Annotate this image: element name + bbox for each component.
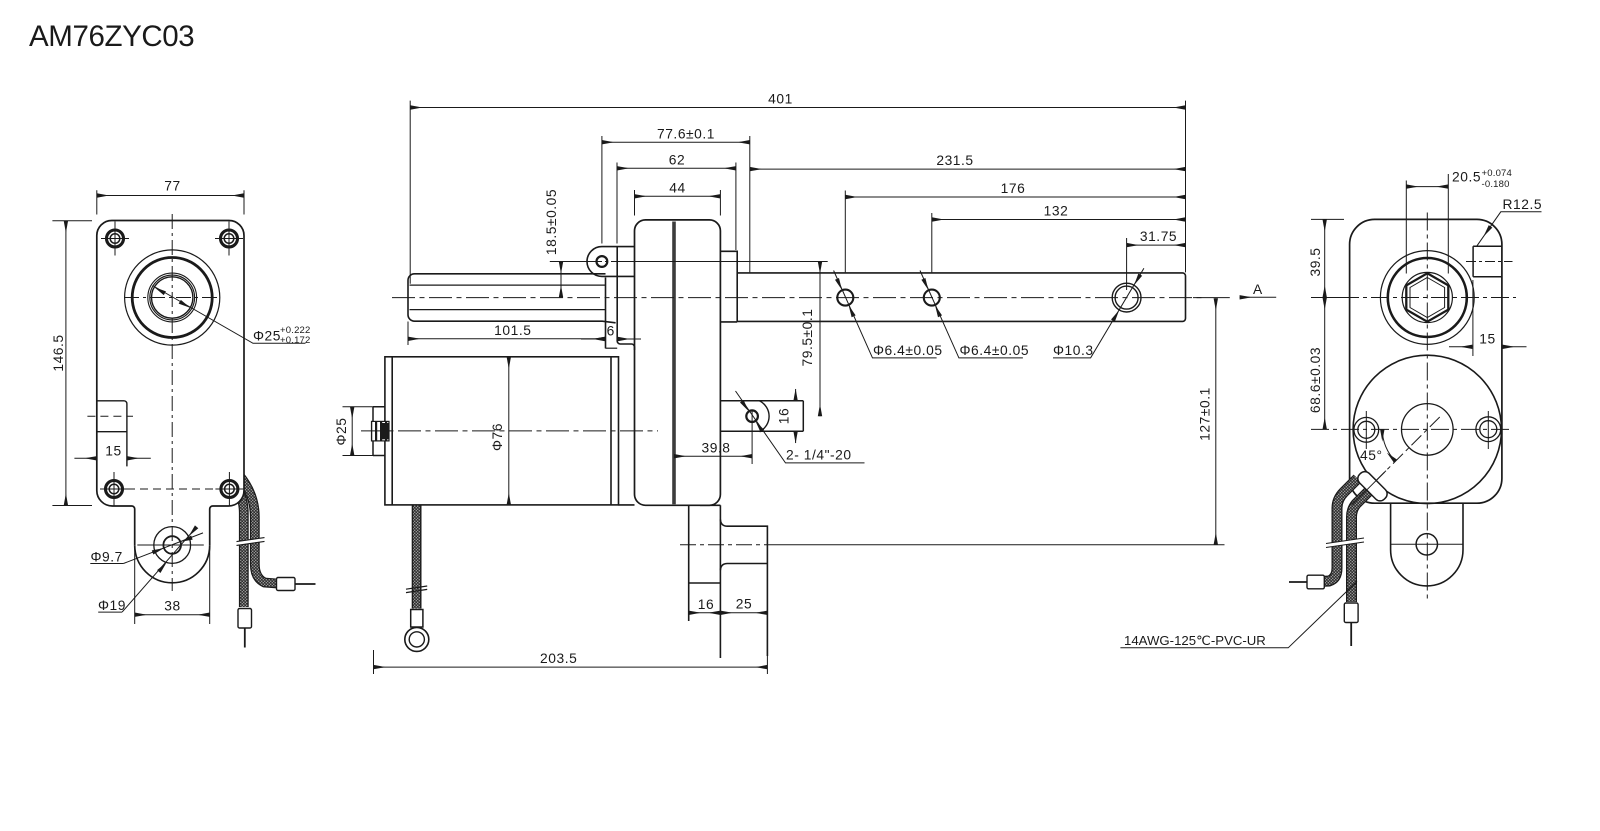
45 deg wire axis bbox=[1356, 416, 1440, 500]
svg-text:A: A bbox=[1253, 282, 1263, 297]
dim 203.5 bbox=[374, 640, 768, 674]
svg-text:16: 16 bbox=[777, 408, 792, 424]
motor cylinder bbox=[385, 357, 721, 506]
svg-text:77.6±0.1: 77.6±0.1 bbox=[657, 126, 715, 141]
dim 25 (clevis) bbox=[720, 612, 767, 614]
screw hole top-right bbox=[215, 222, 243, 256]
svg-text:+0.172: +0.172 bbox=[280, 335, 311, 346]
dim 38 bbox=[135, 546, 210, 624]
rear clevis tab bbox=[720, 520, 767, 657]
bore horizontal centerline bbox=[124, 297, 221, 299]
svg-text:-0.180: -0.180 bbox=[1482, 179, 1510, 190]
clevis centerline extension bbox=[780, 544, 1225, 546]
gear bore circles bbox=[125, 250, 220, 345]
svg-text:146.5: 146.5 bbox=[51, 334, 66, 371]
rod hole 1 (6.4) bbox=[837, 290, 853, 306]
dim 176 bbox=[845, 191, 1185, 273]
section arrow A bbox=[1240, 296, 1277, 298]
right view wires bbox=[1324, 479, 1369, 603]
svg-text:Φ19: Φ19 bbox=[98, 598, 126, 613]
leader dia6.4 first bbox=[834, 271, 937, 358]
hex inner chamfer bbox=[1410, 278, 1445, 318]
svg-text:231.5: 231.5 bbox=[936, 153, 973, 168]
terminal (down) bbox=[1344, 603, 1358, 623]
svg-text:+0.074: +0.074 bbox=[1482, 168, 1513, 179]
vertical centerline bbox=[1426, 213, 1428, 602]
terminal pin (down) bbox=[244, 628, 246, 648]
svg-text:25: 25 bbox=[736, 597, 752, 612]
ear hole bbox=[597, 256, 608, 267]
dim 31.75 bbox=[1127, 238, 1186, 290]
svg-text:2- 1/4"-20: 2- 1/4"-20 bbox=[786, 448, 852, 463]
svg-text:132: 132 bbox=[1044, 204, 1069, 219]
ear hole centerline bbox=[592, 261, 628, 263]
svg-text:15: 15 bbox=[1479, 332, 1495, 347]
svg-text:R12.5: R12.5 bbox=[1503, 197, 1543, 212]
hex boss circles bbox=[1380, 251, 1474, 345]
body corner patch over wires bbox=[210, 450, 244, 506]
pin (left) bbox=[1289, 581, 1307, 583]
rod hole 3 (10.3) bbox=[1112, 283, 1141, 312]
dim 77 bbox=[97, 190, 244, 214]
horizontal centerline bbox=[1311, 428, 1509, 430]
svg-text:6: 6 bbox=[607, 324, 615, 339]
wire clamp ticks bbox=[406, 586, 427, 593]
center hole bbox=[1402, 404, 1454, 456]
lug lobe arc bbox=[759, 401, 769, 432]
dim 39.8 bbox=[674, 410, 752, 464]
rod bearing boss bbox=[720, 251, 737, 322]
screw hole bottom-right bbox=[215, 472, 243, 506]
dim 39.5 bbox=[1311, 219, 1344, 297]
tab hole bbox=[1416, 534, 1437, 555]
svg-text:38: 38 bbox=[164, 599, 180, 614]
svg-text:77: 77 bbox=[164, 179, 180, 194]
svg-text:14AWG-125℃-PVC-UR: 14AWG-125℃-PVC-UR bbox=[1124, 633, 1266, 648]
ear (edge-on) bbox=[1473, 246, 1502, 277]
motor ground wire bbox=[412, 506, 422, 609]
svg-text:15: 15 bbox=[105, 444, 121, 459]
svg-text:Φ76: Φ76 bbox=[490, 423, 505, 451]
dim 6 bbox=[581, 338, 641, 340]
front plate bbox=[606, 247, 635, 350]
screw hole bottom-left bbox=[100, 472, 128, 506]
svg-text:Φ25: Φ25 bbox=[334, 417, 349, 445]
dim 44 bbox=[635, 190, 721, 216]
clevis hole bbox=[137, 527, 204, 564]
svg-text:Φ10.3: Φ10.3 bbox=[1053, 343, 1094, 358]
svg-text:68.6±0.03: 68.6±0.03 bbox=[1308, 347, 1323, 413]
dim 68.6±0.03 bbox=[1324, 298, 1326, 430]
svg-text:Φ6.4±0.05: Φ6.4±0.05 bbox=[873, 343, 943, 358]
svg-text:176: 176 bbox=[1001, 181, 1026, 196]
svg-text:45°: 45° bbox=[1360, 448, 1383, 463]
lug threaded hole bbox=[746, 410, 758, 422]
terminal (left) bbox=[1307, 575, 1324, 589]
dim 231.5 bbox=[750, 168, 1186, 170]
rear clevis neck bbox=[689, 505, 721, 658]
dim 16 (lug) bbox=[795, 389, 797, 443]
left bolt hole bbox=[1354, 411, 1379, 449]
svg-text:Φ9.7: Φ9.7 bbox=[91, 550, 123, 565]
bottom screws dashed line bbox=[101, 488, 241, 490]
svg-text:20.5: 20.5 bbox=[1452, 170, 1481, 185]
svg-text:79.5±0.1: 79.5±0.1 bbox=[800, 308, 815, 366]
dim 15 (notch) bbox=[74, 457, 150, 459]
terminal pin (right) bbox=[295, 583, 316, 585]
mounting lug bar bbox=[720, 401, 803, 432]
trunnion ear (middle view) bbox=[587, 247, 635, 277]
motor circle bbox=[1353, 355, 1501, 503]
dim 401 bbox=[410, 101, 1185, 284]
gearbox joint dark line bbox=[672, 222, 676, 505]
svg-text:401: 401 bbox=[768, 92, 793, 107]
leader 2-1/4-20 bbox=[736, 391, 865, 463]
dim 15 (ear) bbox=[1449, 280, 1527, 356]
dim 18.5±0.05 bbox=[550, 262, 597, 298]
svg-text:31.75: 31.75 bbox=[1140, 229, 1177, 244]
pin (down) bbox=[1350, 623, 1352, 647]
wire outlet collar bbox=[1355, 469, 1389, 503]
dim 79.5±0.1 bbox=[620, 262, 828, 417]
leader dia 25 bore bbox=[153, 286, 306, 344]
extension rod bbox=[737, 273, 1185, 322]
side notch bbox=[97, 401, 127, 467]
rear shaft knurl bbox=[372, 421, 390, 441]
dim dia25 (motor boss) bbox=[343, 407, 384, 456]
body bottom left shoulder bbox=[97, 491, 135, 546]
svg-text:39.8: 39.8 bbox=[701, 440, 730, 455]
dim 20.5 tol bbox=[1406, 174, 1448, 274]
svg-text:101.5: 101.5 bbox=[494, 323, 531, 338]
motor rear boss dia25 bbox=[373, 407, 385, 456]
hex horizontal centerline bbox=[1311, 297, 1516, 299]
svg-text:AM76ZYC03: AM76ZYC03 bbox=[29, 20, 194, 53]
dim 77.6±0.1 bbox=[602, 136, 750, 272]
svg-text:Φ6.4±0.05: Φ6.4±0.05 bbox=[960, 343, 1030, 358]
body bbox=[1350, 219, 1502, 503]
leader R12.5 bbox=[1477, 212, 1542, 246]
svg-text:62: 62 bbox=[669, 152, 685, 167]
svg-text:Φ25: Φ25 bbox=[253, 329, 281, 344]
left view wires (two braided cables) bbox=[231, 475, 277, 607]
45 deg angle arc bbox=[1382, 429, 1395, 461]
main centerline bbox=[392, 297, 1204, 299]
rear clevis tab bbox=[1391, 503, 1463, 586]
right bolt hole bbox=[1476, 411, 1501, 449]
dim 101.5 bbox=[408, 303, 606, 348]
clevis tab semicircle bbox=[135, 545, 210, 583]
svg-text:18.5±0.05: 18.5±0.05 bbox=[544, 189, 559, 255]
svg-text:44: 44 bbox=[669, 180, 685, 195]
dim 16 (clevis) bbox=[689, 612, 721, 614]
dim 62 bbox=[617, 163, 736, 251]
wire terminal (right) bbox=[277, 578, 296, 591]
notch dashed centerline bbox=[87, 415, 133, 417]
leader dia 9.7 bbox=[90, 533, 203, 564]
dim 132 bbox=[932, 213, 1186, 272]
wire break marks bbox=[1326, 538, 1364, 548]
body outline bbox=[97, 221, 244, 491]
dim 146.5 bbox=[52, 221, 92, 506]
gearbox body (side) bbox=[635, 220, 721, 505]
wire terminal (down) bbox=[238, 609, 252, 629]
body bottom right shoulder bbox=[210, 491, 244, 546]
45 deg wire axis over collar bbox=[1352, 471, 1386, 505]
svg-text:39.5: 39.5 bbox=[1308, 247, 1323, 276]
ring terminal ring bbox=[405, 627, 429, 651]
hex socket bbox=[1406, 273, 1448, 321]
notch bottom line bbox=[97, 431, 127, 433]
screw hole top-left bbox=[101, 222, 129, 256]
tab hole centerline bbox=[1391, 543, 1464, 545]
vertical centerline bbox=[171, 214, 173, 591]
wire break marks bbox=[237, 538, 265, 546]
svg-text:16: 16 bbox=[698, 597, 714, 612]
motor centerline bbox=[361, 430, 658, 432]
ear centerline bbox=[1466, 261, 1513, 263]
outer tube bbox=[408, 274, 616, 323]
rod hole 2 (6.4) bbox=[924, 290, 940, 306]
dim dia76 bbox=[508, 357, 510, 505]
dim 127±0.1 bbox=[1193, 298, 1230, 545]
leader dia 19 bbox=[98, 531, 193, 612]
clevis centerline bbox=[680, 544, 780, 546]
leader dia6.4 second bbox=[920, 271, 1023, 358]
ring terminal barrel bbox=[411, 610, 423, 628]
leader dia10.3 bbox=[1053, 268, 1144, 358]
svg-text:127±0.1: 127±0.1 bbox=[1198, 387, 1213, 441]
svg-text:203.5: 203.5 bbox=[540, 651, 577, 666]
